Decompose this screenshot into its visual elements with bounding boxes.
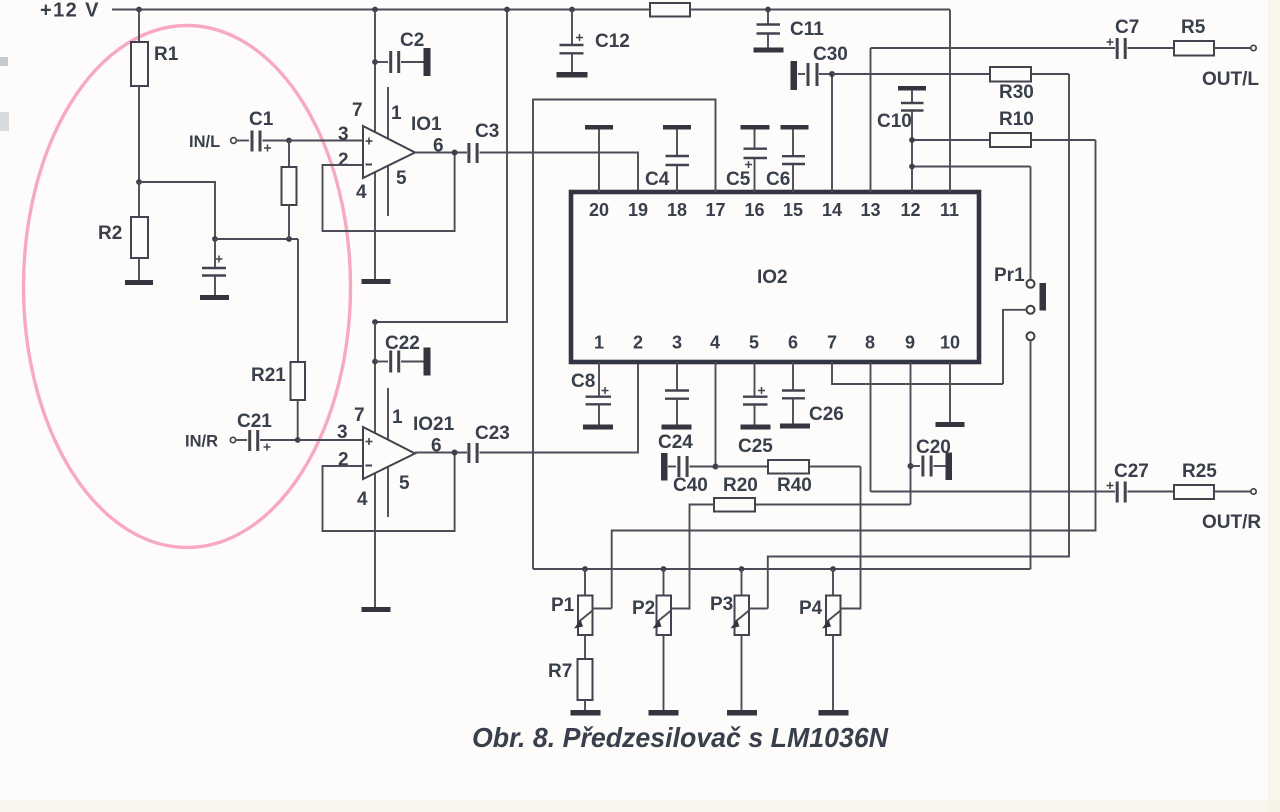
junction C10 line lower [909, 164, 915, 170]
junction pin 9 / C20 [908, 463, 914, 469]
junction on rail at R1 [136, 7, 142, 13]
svg-text:7: 7 [827, 333, 837, 353]
svg-text:17: 17 [706, 200, 726, 220]
svg-text:8: 8 [865, 333, 875, 353]
node R1/R2 junction [136, 179, 142, 185]
caption [472, 722, 889, 753]
ground C8 [583, 425, 613, 430]
capacitor C1 [237, 109, 290, 152]
svg-text:15: 15 [783, 200, 803, 220]
svg-text:C10: C10 [877, 111, 912, 132]
wire Pr1 middle contact to pin 7 [1003, 310, 1027, 384]
capacitor C4 (pin 18) [645, 125, 691, 192]
svg-text:3: 3 [672, 333, 682, 353]
svg-text:C40: C40 [673, 475, 708, 496]
svg-text:R7: R7 [548, 661, 572, 682]
svg-text:18: 18 [667, 200, 687, 220]
svg-text:R2: R2 [98, 223, 122, 244]
junction P2 top [661, 566, 667, 572]
capacitor C21 [236, 411, 298, 451]
junction at cap top [212, 236, 218, 242]
ground (unlabeled cap) [200, 295, 229, 300]
svg-text:2: 2 [338, 450, 349, 471]
junction P4 top [830, 566, 836, 572]
svg-text:C25: C25 [738, 436, 773, 457]
svg-text:Obr. 8. Předzesilovač s LM1036: Obr. 8. Předzesilovač s LM1036N [472, 722, 889, 753]
svg-text:4: 4 [356, 182, 367, 203]
svg-text:C8: C8 [571, 371, 595, 392]
wire IO1 supply (rail to ground) [374, 10, 376, 280]
svg-text:19: 19 [628, 200, 648, 220]
capacitor C7 (electrolytic) [1107, 17, 1175, 59]
capacitor C12 (electrolytic) [560, 10, 630, 73]
svg-text:IO21: IO21 [413, 414, 455, 435]
junction pin 4 node [713, 464, 719, 470]
wire IO1 pin2 feedback loop [323, 153, 455, 232]
svg-text:C24: C24 [658, 432, 693, 453]
resistor (unlabeled, C1 node to divider) [282, 141, 297, 240]
wire cap node to C1 node [215, 238, 298, 240]
junction on rail at C12 [569, 7, 575, 13]
resistor R2 [98, 182, 148, 280]
IC IO2 (LM1036N) body [571, 192, 979, 362]
resistor (unlabeled, in rail) [650, 3, 690, 17]
svg-text:P4: P4 [799, 598, 823, 619]
svg-text:C22: C22 [385, 333, 420, 354]
jumper Pr1 [994, 265, 1046, 340]
wire C3 to IC pin 19 [480, 153, 639, 191]
ground P4 [819, 710, 849, 716]
wire IC pin 14 riser [831, 74, 833, 192]
wire R30 right riser (down to P3 wiper line) [768, 74, 1069, 609]
svg-text:Pr1: Pr1 [994, 265, 1025, 286]
wire pin17 frame (pin 17 up over IC to pots rail) [533, 100, 716, 570]
svg-text:12: 12 [901, 200, 921, 220]
svg-text:14: 14 [822, 200, 842, 220]
capacitor C5 (pin 16, electrolytic) [726, 125, 770, 192]
resistor R20 (pin 9 to P2 wiper) [671, 475, 911, 609]
svg-text:R5: R5 [1181, 17, 1206, 38]
capacitor C3 [469, 121, 499, 163]
capacitor C22 [372, 333, 430, 376]
svg-text:C20: C20 [916, 437, 951, 458]
svg-text:C12: C12 [595, 31, 630, 52]
wire IO1 pins 1/5 line [387, 87, 389, 216]
junction IO21 supply top [372, 319, 378, 325]
svg-text:16: 16 [745, 200, 765, 220]
svg-text:20: 20 [589, 200, 609, 220]
capacitor C6 (pin 15) [766, 125, 809, 192]
wire OUT/L line (pin 13 to C7) [871, 47, 1116, 49]
capacitor C11 [757, 10, 825, 48]
svg-text:C6: C6 [766, 169, 790, 190]
svg-text:C2: C2 [400, 30, 424, 51]
ground at IC pin 20 [585, 125, 613, 192]
wire IC pin 8 riser (to OUT/R) [870, 362, 872, 492]
wire C1 to IO1 pin3 [289, 140, 363, 142]
IC IO2 top pin numbers [589, 200, 959, 220]
junction on rail at IO1 supply [372, 7, 378, 13]
wire rail branch to IO21 supply [375, 10, 507, 323]
capacitor C30 (series into pin 14 node) [791, 44, 848, 90]
wire Pr1 top riser [1030, 167, 1032, 280]
svg-text:C11: C11 [790, 19, 824, 40]
svg-text:C23: C23 [475, 423, 510, 444]
wire OUT/R line (pin 8 to C27) [871, 491, 1116, 493]
svg-text:3: 3 [337, 422, 348, 443]
junction on rail at IO21 supply branch [504, 7, 510, 13]
svg-text:R10: R10 [999, 109, 1034, 130]
svg-text:6: 6 [788, 333, 798, 353]
svg-text:1: 1 [392, 407, 403, 428]
svg-text:IO2: IO2 [757, 267, 788, 288]
ground IO1 supply [362, 279, 391, 284]
wire IC pin 4 riser [715, 362, 717, 467]
svg-text:5: 5 [399, 473, 410, 494]
potentiometer P3 [710, 569, 768, 710]
wire IO21 pins 1/5 line [387, 388, 389, 517]
svg-text:C7: C7 [1115, 17, 1139, 38]
svg-text:3: 3 [338, 124, 349, 145]
svg-text:R25: R25 [1182, 461, 1217, 482]
potentiometer P4 [799, 569, 841, 710]
capacitor (unlabeled electrolytic) [202, 239, 226, 295]
capacitor C25 (pin 5, electrolytic) [738, 362, 773, 457]
capacitor C24 (pin 3) [658, 362, 693, 453]
op-amp IO21 [337, 405, 455, 510]
svg-text:C1: C1 [249, 109, 274, 130]
capacitor C2 [372, 30, 430, 76]
wire IO21 output [415, 452, 467, 454]
svg-text:IO1: IO1 [411, 114, 442, 135]
svg-text:7: 7 [352, 100, 363, 121]
svg-text:5: 5 [749, 333, 759, 353]
ground at IC pin 10 [936, 362, 965, 427]
svg-text:9: 9 [905, 333, 915, 353]
op-amp IO1 [338, 100, 444, 203]
svg-text:IN/R: IN/R [185, 433, 218, 451]
svg-text:P2: P2 [632, 598, 655, 619]
svg-text:OUT/L: OUT/L [1202, 69, 1259, 90]
junction C1 output [286, 138, 292, 144]
svg-text:P1: P1 [551, 595, 575, 616]
junction C10 line at R10 [909, 137, 915, 143]
wire IC pin 11 riser (from +12V rail) [949, 10, 951, 193]
ground IO21 supply [362, 607, 391, 612]
svg-text:R21: R21 [251, 365, 286, 386]
wire pots top rail (pin 17 net) [533, 568, 1031, 570]
ground R7 [571, 710, 601, 716]
wire IO1 output [415, 152, 467, 154]
ground P2 [649, 710, 679, 716]
svg-text:C5: C5 [726, 169, 751, 190]
svg-text:5: 5 [396, 168, 407, 189]
wire R10 right riser (down to P1 wiper line) [612, 140, 1096, 609]
ground R2 [125, 280, 153, 285]
svg-text:4: 4 [710, 333, 720, 353]
resistor R30 [990, 67, 1069, 103]
capacitor C26 (pin 6) [782, 362, 844, 425]
wire IO21 supply (to ground) [374, 322, 376, 607]
junction on rail at C11 [765, 7, 771, 13]
svg-text:OUT/R: OUT/R [1202, 512, 1261, 533]
junction IO21 output [452, 450, 458, 456]
wire C30 node to R30 [832, 73, 990, 75]
wire +12V rail [112, 9, 950, 11]
svg-text:+12 V: +12 V [40, 0, 100, 22]
capacitor C8 (pin 1, electrolytic) [571, 362, 611, 425]
resistor R21 [251, 239, 305, 440]
ground C24 [662, 425, 692, 430]
IC IO2 bottom pin numbers [594, 333, 960, 353]
node IN/R terminal [185, 433, 236, 451]
junction at divider node [286, 236, 292, 242]
wire pin12 node to Pr1 top [912, 166, 1031, 168]
node +12V label [40, 0, 100, 22]
svg-text:11: 11 [940, 200, 959, 220]
junction IO1 output [452, 150, 458, 156]
wire IO21 pin2 feedback loop [323, 453, 455, 532]
ground C25 [741, 425, 771, 430]
svg-text:IN/L: IN/L [189, 133, 220, 151]
wire C21 to IO21 pin3 [298, 439, 363, 441]
svg-text:C26: C26 [809, 404, 844, 425]
svg-text:C27: C27 [1114, 461, 1149, 482]
potentiometer P1 [551, 569, 612, 635]
resistor R1 [131, 10, 179, 183]
wire Pr1 bottom contact to pots rail [1030, 340, 1032, 569]
resistor R5 [1174, 17, 1251, 56]
node IN/L terminal [189, 133, 236, 151]
svg-text:13: 13 [861, 200, 881, 220]
resistor R25 [1174, 461, 1251, 499]
junction C21/R21 [295, 437, 301, 443]
resistor R10 [912, 109, 1096, 147]
junction C30 / pin14 [829, 71, 835, 77]
ground C12 [557, 72, 588, 78]
wire IC pin 9 riser [910, 362, 912, 505]
svg-text:C3: C3 [475, 121, 499, 142]
svg-text:1: 1 [594, 333, 604, 353]
wire C23 to IC pin 2 [480, 364, 639, 453]
capacitor C10 (pin 12, to ground above) [877, 86, 926, 192]
wire IC pin 13 riser (to OUT/L line) [870, 48, 872, 192]
highlight ellipse (pink) [24, 26, 351, 548]
svg-text:R20: R20 [723, 475, 758, 496]
svg-text:C21: C21 [237, 411, 272, 432]
svg-text:C30: C30 [813, 44, 848, 65]
svg-text:2: 2 [633, 333, 643, 353]
svg-text:R1: R1 [154, 44, 179, 65]
svg-text:4: 4 [357, 489, 368, 510]
capacitor C27 (electrolytic) [1107, 461, 1175, 503]
svg-text:R30: R30 [999, 82, 1034, 103]
svg-text:7: 7 [354, 405, 365, 426]
wire junction to cap branch [139, 182, 215, 239]
ground C26 [780, 424, 810, 429]
capacitor C40 (series, left of pin 4 node) [661, 453, 716, 496]
wire R40 right riser (to P4 wiper) [841, 467, 861, 609]
ground C11 [754, 48, 784, 53]
resistor R40 [716, 460, 861, 496]
svg-text:1: 1 [391, 103, 402, 124]
svg-text:2: 2 [338, 150, 349, 171]
node OUT/R terminal [1202, 489, 1261, 533]
svg-text:R40: R40 [777, 475, 812, 496]
capacitor C20 (series, right of pin 9) [911, 437, 953, 480]
potentiometer P2 [632, 569, 671, 710]
resistor R7 [548, 635, 593, 710]
capacitor C23 [469, 423, 510, 463]
node OUT/L terminal [1202, 45, 1259, 90]
ground P3 [727, 710, 757, 716]
junction P1 top [582, 566, 588, 572]
svg-text:10: 10 [940, 333, 960, 353]
wire IC pin 7 to Pr1 middle [832, 362, 1003, 384]
svg-text:C4: C4 [645, 169, 670, 190]
junction P3 top [739, 566, 745, 572]
svg-text:P3: P3 [710, 594, 733, 615]
